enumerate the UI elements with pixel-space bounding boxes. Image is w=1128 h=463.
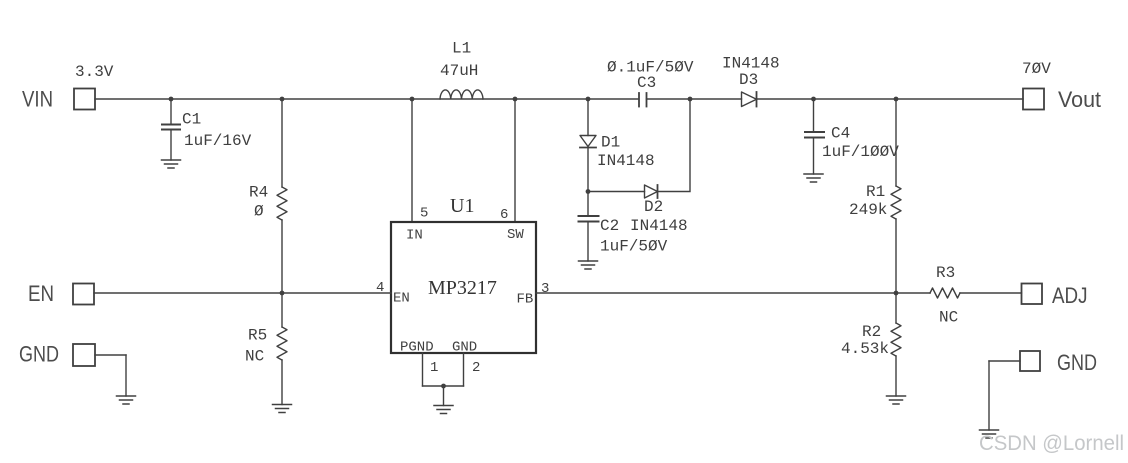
inductor L1 <box>440 90 483 99</box>
diode D2 <box>645 185 658 198</box>
port VIN <box>74 89 95 110</box>
wire EN rail <box>94 292 391 294</box>
diode D3 <box>742 92 757 107</box>
wire GND right <box>989 361 1020 430</box>
wire R3 to ADJ <box>960 292 1022 294</box>
svg-text:SW: SW <box>507 227 524 243</box>
node R5 junction <box>280 291 285 296</box>
resistor R4 <box>277 99 287 293</box>
port EN <box>73 284 94 305</box>
node pin6 junction <box>513 97 518 102</box>
svg-text:Ø: Ø <box>254 203 264 221</box>
svg-text:GND: GND <box>1057 350 1097 375</box>
ground C2 <box>579 261 598 269</box>
svg-text:3: 3 <box>541 281 549 297</box>
svg-text:1uF/1ØØV: 1uF/1ØØV <box>822 143 899 161</box>
ground R2 <box>887 396 906 404</box>
svg-text:MP3217: MP3217 <box>428 277 497 299</box>
port Vout <box>1023 89 1044 110</box>
svg-text:IN4148: IN4148 <box>722 55 780 73</box>
svg-text:R3: R3 <box>936 264 955 282</box>
svg-text:IN4148: IN4148 <box>630 217 688 235</box>
svg-text:Vout: Vout <box>1058 87 1101 112</box>
node R2 junction <box>894 291 899 296</box>
resistor R2 <box>891 293 901 396</box>
svg-text:IN: IN <box>406 228 423 244</box>
capacitor C3 <box>639 93 647 107</box>
svg-text:EN: EN <box>393 291 410 307</box>
node pin5 junction <box>410 97 415 102</box>
svg-text:PGND: PGND <box>400 340 434 356</box>
node C4 junction <box>811 97 816 102</box>
svg-text:47uH: 47uH <box>440 62 478 80</box>
svg-text:VIN: VIN <box>22 87 53 112</box>
svg-text:R1: R1 <box>866 183 885 201</box>
wire D3 to Vout <box>757 98 1024 100</box>
ground C1 <box>162 160 181 168</box>
ground GND right port <box>980 430 999 438</box>
node R4 junction <box>280 97 285 102</box>
diode D1 <box>580 99 596 192</box>
svg-text:3.3V: 3.3V <box>75 63 114 81</box>
svg-text:C1: C1 <box>182 111 201 129</box>
svg-text:R4: R4 <box>249 184 268 202</box>
ground C4 <box>804 174 823 182</box>
node R1 junction <box>894 97 899 102</box>
ground U1 <box>434 406 453 414</box>
wire VIN rail to C3 <box>95 98 639 100</box>
ground GND left port <box>117 396 136 404</box>
svg-text:D2: D2 <box>644 198 663 216</box>
svg-text:IN4148: IN4148 <box>597 152 655 170</box>
wire pin5 <box>411 99 413 222</box>
svg-text:6: 6 <box>500 207 508 223</box>
svg-text:GND: GND <box>19 342 59 367</box>
svg-text:D1: D1 <box>601 134 620 152</box>
svg-text:FB: FB <box>517 292 534 308</box>
svg-text:ADJ: ADJ <box>1052 283 1088 308</box>
capacitor C4 <box>805 99 824 174</box>
node D1 junction <box>586 97 591 102</box>
op-amp U1 MP3217 box <box>391 222 536 353</box>
svg-text:2: 2 <box>472 360 480 376</box>
wire GND left <box>95 355 126 396</box>
resistor R5 <box>277 293 287 405</box>
svg-text:R5: R5 <box>248 327 267 345</box>
svg-text:C4: C4 <box>831 125 850 143</box>
svg-text:4.53k: 4.53k <box>841 340 889 358</box>
svg-text:EN: EN <box>28 281 54 306</box>
svg-text:1uF/16V: 1uF/16V <box>184 132 252 150</box>
node D2 left junction <box>586 189 591 194</box>
svg-text:R2: R2 <box>862 323 881 341</box>
svg-text:7ØV: 7ØV <box>1022 60 1051 78</box>
wire pin6 <box>514 99 516 222</box>
wire pin1 pin2 to ground <box>423 353 464 406</box>
svg-text:CSDN @Lornell: CSDN @Lornell <box>979 432 1124 455</box>
resistor R1 <box>891 99 901 293</box>
capacitor C2 <box>579 192 599 262</box>
svg-text:1uF/5ØV: 1uF/5ØV <box>600 238 668 256</box>
node C3 right junction <box>688 97 693 102</box>
resistor R3 <box>930 288 960 298</box>
svg-text:C2: C2 <box>600 217 619 235</box>
wire C2 node to D2 <box>588 191 645 193</box>
svg-text:C3: C3 <box>637 74 656 92</box>
svg-text:NC: NC <box>245 348 264 366</box>
capacitor C1 <box>162 99 180 160</box>
node C1 junction <box>169 97 174 102</box>
wire FB rail <box>536 292 930 294</box>
port GND right <box>1020 351 1040 371</box>
svg-text:L1: L1 <box>452 40 471 58</box>
port GND left <box>73 344 95 366</box>
svg-text:5: 5 <box>420 206 428 222</box>
wire D2 to C3 right node <box>658 99 691 192</box>
wire C3 to D3 <box>647 98 742 100</box>
svg-text:1: 1 <box>430 360 438 376</box>
svg-text:249k: 249k <box>849 201 887 219</box>
ground R5 <box>273 405 292 413</box>
node pgnd junction <box>441 384 446 389</box>
svg-text:D3: D3 <box>739 71 758 89</box>
svg-text:NC: NC <box>939 309 958 327</box>
port ADJ <box>1022 284 1043 305</box>
svg-text:GND: GND <box>452 340 477 356</box>
svg-text:U1: U1 <box>450 195 474 217</box>
